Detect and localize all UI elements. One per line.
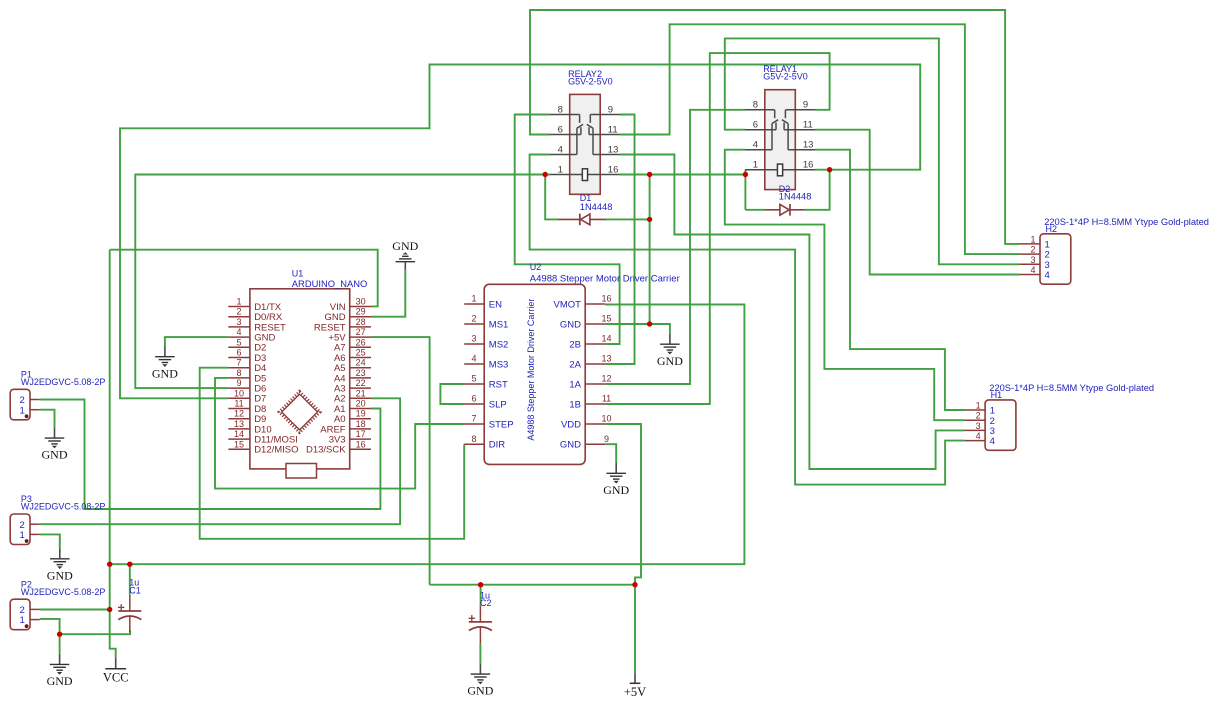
svg-text:220S-1*4P H=8.5MM Ytype Gold-p: 220S-1*4P H=8.5MM Ytype Gold-plated [989,383,1154,393]
svg-text:10: 10 [601,414,611,424]
svg-text:GND: GND [467,684,493,698]
svg-text:MS3: MS3 [489,359,509,370]
ground at P3 pin1 [59,548,61,559]
+5V power symbol [634,673,636,683]
capacitor C1 1u [129,595,131,611]
wire RELAY2 pin16 to RELAY1 pin1 net [620,174,746,176]
svg-text:1: 1 [558,164,563,175]
junction +5V symbol / VDD [632,582,637,587]
svg-text:27: 27 [356,327,366,337]
svg-text:11: 11 [602,394,611,404]
wire RELAY1 pin1 drop [744,170,746,210]
wire RELAY1 pin6 to H2 pin3 [725,38,1020,264]
wire A4988 GND9 to ground [605,444,616,463]
wire Arduino A2 to P3 pin2 [40,398,400,524]
wire Arduino D4 to A4988 DIR [200,368,465,539]
wire A4988 RST to SLP jumper [440,384,464,404]
wire P2 pin1 drop [40,619,60,634]
wire RELAY2 pin9 to A4988 2A [605,115,634,365]
svg-text:11: 11 [608,124,618,135]
ground at A4988 GND15 [669,334,671,345]
junction RELAY2 pin16 / GND rail [647,172,652,177]
wire RELAY1 pin8 to A4988 1A [605,110,745,384]
wire VCC to Arduino VIN [110,250,378,307]
svg-text:22: 22 [356,378,366,388]
svg-text:STEP: STEP [489,419,514,430]
svg-text:26: 26 [356,337,366,347]
svg-text:17: 17 [356,429,366,439]
svg-text:5: 5 [471,374,476,384]
svg-text:11: 11 [803,120,813,131]
svg-text:GND: GND [657,354,683,368]
svg-text:1N4448: 1N4448 [779,192,812,202]
svg-text:14: 14 [601,334,611,344]
junction RELAY2 pin1 / D1 [543,172,548,177]
wire coil return to GND rail [649,175,651,325]
wire D2 cathode to RELAY1 pin16 [804,170,829,210]
wire RELAY1 pin13 to H1 pin1 [815,150,965,410]
wire Arduino GND pin29 to ground [371,269,405,317]
svg-text:6: 6 [753,120,758,131]
junction A4988 GND15 / GND rail [647,321,652,326]
svg-text:13: 13 [234,419,244,429]
svg-text:2A: 2A [569,359,581,370]
svg-text:12: 12 [601,374,611,384]
svg-text:16: 16 [601,294,611,304]
junction RELAY1 pin16 / D2 [827,167,832,172]
relay RELAY1 G5V-2-5V0 [765,90,796,190]
svg-text:1N4448: 1N4448 [580,202,613,212]
ground at C2 [479,664,481,675]
svg-text:1: 1 [1030,234,1035,244]
svg-text:VMOT: VMOT [554,299,582,310]
svg-text:4: 4 [753,140,758,151]
svg-text:VCC: VCC [103,671,129,685]
svg-text:H1: H1 [991,390,1003,400]
svg-text:25: 25 [356,348,366,358]
wire C2 positive lead [480,585,482,606]
wire P3 pin1 to ground [40,534,60,548]
svg-text:GND: GND [42,448,68,462]
svg-text:G5V-2-5V0: G5V-2-5V0 [763,72,808,82]
Arduino Nano U1 body [250,289,350,469]
svg-text:18: 18 [356,419,366,429]
wire Arduino A1 to P1 pin2 [40,400,381,510]
svg-text:9: 9 [803,100,808,111]
svg-text:19: 19 [356,409,366,419]
junction VCC rail / VMOT line [107,562,112,567]
svg-text:30: 30 [356,297,366,307]
wire RELAY2 pin1 to D1 cathode [545,175,559,220]
svg-text:16: 16 [803,160,814,171]
svg-text:15: 15 [234,439,244,449]
wire P1 pin1 to ground [40,410,55,428]
svg-text:A4988 Stepper Motor Driver Car: A4988 Stepper Motor Driver Carrier [526,299,536,441]
svg-text:14: 14 [234,429,244,439]
svg-text:4: 4 [236,327,241,337]
svg-text:1A: 1A [569,379,581,390]
wire RELAY2 pin11 to H2 pin2 [620,24,1020,254]
svg-text:1: 1 [976,401,981,411]
svg-text:13: 13 [601,354,611,364]
svg-text:28: 28 [356,317,366,327]
svg-text:4: 4 [558,144,563,155]
wire RELAY1 pin11 to H2 pin4 [815,130,1020,275]
svg-text:23: 23 [356,368,366,378]
wire RELAY1 pin16 to Arduino D7 [120,65,920,399]
svg-text:4: 4 [471,354,476,364]
junction C1 / VCC line [127,562,132,567]
wire P2 pin1 to ground [59,634,61,654]
header H1 220S-1*4P [985,400,1016,450]
svg-text:29: 29 [356,307,366,317]
Arduino U1 MCU diamond glyph [279,391,320,432]
svg-text:16: 16 [356,439,366,449]
svg-text:4: 4 [1045,270,1050,281]
svg-text:WJ2EDGVC-5.08-2P: WJ2EDGVC-5.08-2P [21,587,106,597]
svg-text:MS2: MS2 [489,339,509,350]
wire RELAY2 pin13 to H1 pin3 [620,155,965,470]
junction RELAY1 pin1 / coil net [743,172,748,177]
wire RELAY2 pin6 to H2 pin1 [530,10,1020,244]
ground at A4988 GND9 [615,463,617,474]
svg-text:13: 13 [608,144,619,155]
wire A4988 GND15 to ground [605,324,670,334]
svg-text:EN: EN [489,299,502,310]
svg-text:SLP: SLP [489,399,507,410]
svg-text:13: 13 [803,140,814,151]
wire Arduino +5V pin27 down [371,337,430,585]
svg-text:GND: GND [392,239,418,253]
svg-text:4: 4 [1030,265,1035,275]
diode D1 1N4448 [579,214,581,226]
junction P2 pin2 / VCC rail [107,607,112,612]
svg-text:3: 3 [976,421,981,431]
svg-text:WJ2EDGVC-5.08-2P: WJ2EDGVC-5.08-2P [21,377,106,387]
svg-text:6: 6 [471,394,476,404]
svg-text:9: 9 [608,104,613,115]
relay RELAY2 G5V-2-5V0 [570,94,601,194]
svg-text:+5V: +5V [624,685,646,699]
svg-text:16: 16 [608,164,619,175]
H2 pin stubs [1020,243,1041,245]
wire A4988 VMOT to VCC rail [110,305,745,565]
svg-text:12: 12 [234,409,244,419]
VCC power symbol [115,658,117,669]
ground at P1 pin1 [54,428,56,439]
svg-text:MS1: MS1 [489,319,509,330]
svg-text:6: 6 [236,348,241,358]
Arduino U1 USB connector rectangle [286,464,317,479]
svg-text:1: 1 [20,405,25,416]
svg-text:1B: 1B [569,399,581,410]
wire VCC vertical rail [109,250,111,610]
svg-text:11: 11 [234,399,243,409]
junction D1 anode / GND rail [647,217,652,222]
U1 pin stubs [228,306,250,308]
svg-text:4: 4 [976,431,981,441]
svg-text:1: 1 [471,294,476,304]
svg-text:3: 3 [471,334,476,344]
wire RELAY1 pin9 to A4988 1B [605,53,829,404]
svg-text:6: 6 [558,124,563,135]
svg-text:H2: H2 [1046,224,1058,234]
svg-text:7: 7 [236,358,241,368]
H1 pin stubs [965,409,986,411]
wire +5V rail to +5V symbol [634,585,636,674]
svg-text:C1: C1 [129,586,141,596]
junction P2 pin1 / C1- / GND [57,632,62,637]
svg-text:2: 2 [471,314,476,324]
svg-text:220S-1*4P H=8.5MM Ytype Gold-p: 220S-1*4P H=8.5MM Ytype Gold-plated [1044,217,1209,227]
header H2 220S-1*4P [1040,234,1071,284]
svg-text:21: 21 [356,388,366,398]
svg-text:WJ2EDGVC-5.08-2P: WJ2EDGVC-5.08-2P [21,502,106,512]
svg-text:VDD: VDD [561,419,581,430]
svg-text:GND: GND [560,319,581,330]
svg-text:15: 15 [601,314,611,324]
capacitor C2 1u [479,606,481,622]
svg-text:G5V-2-5V0: G5V-2-5V0 [568,76,613,86]
wire P2 pin1 to C1 negative [60,631,131,635]
svg-text:3: 3 [1030,255,1035,265]
svg-text:GND: GND [47,568,73,582]
wire A4988 VDD to +5V rail [605,424,641,585]
svg-text:9: 9 [604,434,609,444]
svg-text:24: 24 [356,358,366,368]
svg-text:C2: C2 [480,598,492,608]
svg-text:GND: GND [560,440,581,451]
junction C2 / +5V rail [478,582,483,587]
svg-text:5: 5 [236,337,241,347]
svg-text:20: 20 [356,399,366,409]
svg-text:1: 1 [20,615,25,626]
svg-text:3: 3 [236,317,241,327]
svg-text:10: 10 [234,388,244,398]
wire C1 positive to VCC rail [129,564,131,595]
svg-text:2B: 2B [569,339,581,350]
wire D1 anode to GND rail [605,218,650,220]
svg-text:8: 8 [558,104,563,115]
wire Arduino D5 to A4988 STEP [215,378,464,489]
svg-text:RST: RST [489,379,508,390]
svg-text:U2: U2 [530,262,542,272]
svg-text:7: 7 [471,414,476,424]
wire Arduino GND pin4 to ground [165,337,228,346]
svg-text:1: 1 [20,530,25,541]
svg-text:D12/MISO: D12/MISO [254,445,298,456]
svg-text:9: 9 [236,378,241,388]
svg-text:D13/SCK: D13/SCK [306,445,346,456]
wire RELAY2 pin8 to A4988 2B [515,115,620,345]
svg-text:1: 1 [753,160,758,171]
connector P2 WJ2EDGVC-5.08-2P [10,599,30,630]
connector P1 WJ2EDGVC-5.08-2P [10,389,30,420]
wire VCC rail to VCC symbol [110,610,116,658]
svg-text:2: 2 [976,411,981,421]
wire D2 anode lead-in [745,209,766,211]
svg-text:8: 8 [236,368,241,378]
wire P2 pin2 to VCC rail [40,609,110,611]
svg-text:1: 1 [236,297,241,307]
connector P3 WJ2EDGVC-5.08-2P [10,514,30,545]
svg-text:2: 2 [236,307,241,317]
svg-text:4: 4 [990,436,995,447]
wire RELAY2 pin4 to H1 pin4 [530,155,965,485]
svg-text:8: 8 [471,434,476,444]
wire +5V rail [430,584,635,586]
svg-text:2: 2 [1030,245,1035,255]
svg-text:DIR: DIR [489,440,506,451]
svg-text:8: 8 [753,100,758,111]
svg-text:A4988 Stepper Motor Driver Car: A4988 Stepper Motor Driver Carrier [530,274,680,285]
diode D2 1N4448 [789,204,791,216]
ground at P2 pin1 [59,654,61,665]
svg-text:GND: GND [152,366,178,380]
svg-text:GND: GND [603,483,629,497]
A4988 stepper driver U2 body [484,284,585,464]
svg-text:ARDUINO_NANO: ARDUINO_NANO [292,278,368,289]
wire Arduino D6 to RELAY2 coil pin 1 [135,175,550,389]
wire RELAY1 pin4 to H1 pin2 [725,150,965,421]
ground at Arduino pin4 [164,346,166,357]
U2 pin stubs [464,303,484,305]
svg-text:GND: GND [47,674,73,688]
wire C2 negative to ground [479,644,481,664]
